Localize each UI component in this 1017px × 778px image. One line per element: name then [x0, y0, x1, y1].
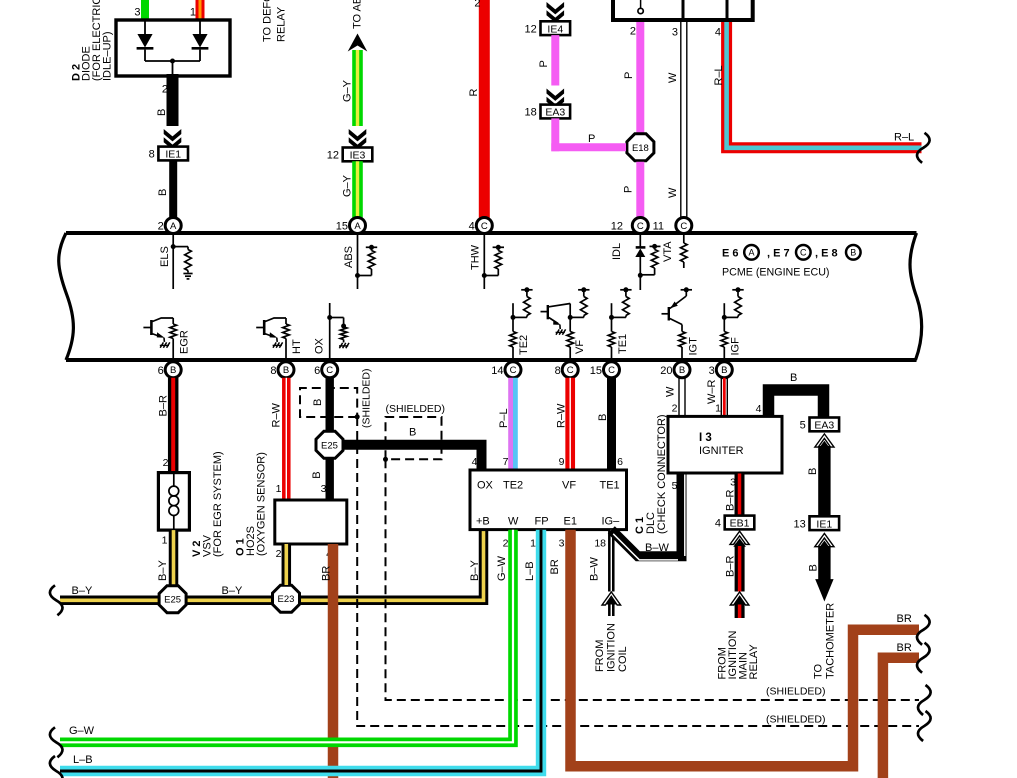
svg-text:B–Y: B–Y [222, 585, 243, 597]
svg-text:B: B [157, 189, 169, 196]
svg-text:1: 1 [530, 538, 536, 550]
connector IE4 [525, 21, 571, 35]
ground (HT emitter) [273, 342, 283, 347]
svg-text:B–R: B–R [725, 490, 737, 511]
wire W (20B IGT to igniter pin 2) [665, 378, 686, 417]
wire B (EA3 to IE1, arrows up) [807, 434, 834, 516]
svg-text:E25: E25 [164, 595, 181, 606]
svg-text:TO: TO [813, 663, 825, 679]
junction E25 (lower) [159, 586, 186, 613]
svg-text:THW: THW [470, 244, 482, 270]
svg-text:(SHIELDED): (SHIELDED) [766, 686, 826, 698]
svg-text:FP: FP [535, 516, 549, 528]
svg-text:(SHIELDED): (SHIELDED) [361, 368, 373, 428]
label FROM IGNITION COIL [594, 623, 629, 672]
terminal 3(B) IGF [709, 362, 733, 378]
svg-text:1: 1 [276, 483, 282, 495]
svg-text:B–R: B–R [725, 556, 737, 577]
diode D2-left [137, 20, 154, 61]
svg-text:BR: BR [549, 559, 561, 574]
wire P (IE4 to EA3) [538, 35, 564, 112]
svg-text:I 3: I 3 [699, 432, 712, 444]
svg-text:IG–: IG– [602, 516, 621, 528]
svg-text:B: B [283, 365, 289, 376]
terminal 8(B) HT [270, 362, 294, 378]
svg-text:TACHOMETER: TACHOMETER [825, 603, 837, 679]
svg-text:R–W: R–W [271, 402, 283, 427]
wire B-Y (VSV pin 1 to E25) [157, 530, 174, 585]
wire G-Y (IE3 to terminal 15A) [342, 161, 358, 218]
svg-text:15: 15 [590, 365, 602, 377]
svg-text:IE3: IE3 [350, 150, 366, 162]
ECU input IDL: diode and resistor [611, 235, 661, 290]
svg-text:A: A [170, 221, 177, 232]
svg-text:B–Y: B–Y [157, 560, 169, 581]
svg-text:, E 7: , E 7 [767, 248, 790, 260]
svg-text:(OXYGEN SENSOR): (OXYGEN SENSOR) [256, 452, 268, 556]
svg-text:3: 3 [134, 7, 140, 19]
svg-text:4: 4 [472, 456, 478, 468]
svg-text:C: C [326, 365, 333, 376]
wire BR (bottom edge to right break) [883, 642, 919, 778]
label O1 HO2S (OXYGEN SENSOR) [235, 452, 268, 556]
svg-text:W: W [667, 72, 679, 83]
terminal 12(C) IDL [611, 218, 649, 234]
wire B-W (DLC IG- pin 18 to ignition coil) [589, 530, 621, 616]
shield dashed box (B wire to DLC) [383, 403, 445, 462]
diode D2-right [192, 20, 209, 61]
svg-text:E23: E23 [278, 594, 295, 605]
ECU output OX: resistor to ground [314, 303, 347, 358]
wire B-R (EB1 from ignition main relay) [725, 531, 750, 618]
ECU input THW: pull-up resistor [470, 235, 505, 289]
svg-text:, E 8: , E 8 [815, 248, 838, 260]
svg-text:2: 2 [672, 403, 678, 415]
wire G-W (DLC W pin 2 to left break) [60, 530, 513, 743]
break (G-W left) [50, 727, 63, 757]
wire P-L (14C TE2 to DLC pin 7) [498, 378, 515, 470]
svg-text:2: 2 [158, 221, 164, 233]
svg-text:EB1: EB1 [730, 518, 750, 530]
wire W (pin 3 to terminal 11C) [667, 22, 687, 218]
transistor driver HT [256, 318, 303, 358]
terminal 8(C) VF [555, 362, 579, 378]
svg-text:B–W: B–W [645, 542, 669, 554]
wire B (IE1 to terminal 2A) [157, 160, 173, 217]
svg-text:8: 8 [149, 149, 155, 161]
svg-text:TO ABS: TO ABS [352, 0, 364, 29]
terminal 14(C) TE2 [491, 362, 521, 378]
svg-text:IE1: IE1 [816, 518, 832, 530]
svg-text:C: C [800, 248, 807, 258]
svg-text:B: B [807, 468, 819, 475]
terminal 15(A) ABS [336, 218, 366, 234]
svg-text:R–L: R–L [894, 132, 914, 144]
wire R-W (8C VF to DLC pin 9) [556, 378, 571, 470]
svg-text:B: B [597, 414, 609, 421]
svg-text:IE4: IE4 [547, 23, 563, 35]
svg-text:G–W: G–W [496, 555, 508, 581]
wire B-R (igniter pin 3 to EB1) [725, 474, 740, 516]
svg-text:E 6: E 6 [722, 248, 739, 260]
solenoid V2 VSV box [158, 473, 189, 530]
svg-text:1: 1 [715, 403, 721, 415]
svg-text:ABS: ABS [343, 246, 355, 268]
connector C1 DLC box [470, 470, 627, 530]
svg-text:PCME (ENGINE ECU): PCME (ENGINE ECU) [722, 267, 829, 279]
terminal 11(C) VTA [653, 218, 692, 234]
svg-text:TE1: TE1 [600, 480, 620, 492]
connector EA3 (top) [525, 105, 571, 119]
svg-text:2: 2 [630, 26, 636, 38]
svg-text:15: 15 [336, 221, 348, 233]
ECU input ELS: resistor to ground [159, 235, 191, 289]
svg-text:P: P [623, 186, 635, 193]
ECU output TE2: resistors [510, 287, 533, 358]
label C1 DLC (CHECK CONNECTOR) [634, 414, 668, 534]
svg-text:W: W [665, 386, 677, 397]
svg-text:C: C [567, 365, 574, 376]
svg-text:4: 4 [756, 403, 762, 415]
svg-text:18: 18 [525, 107, 537, 119]
svg-text:(SHIELDED): (SHIELDED) [766, 714, 826, 726]
svg-text:11: 11 [653, 221, 664, 233]
svg-text:6: 6 [314, 365, 320, 377]
svg-text:B: B [808, 564, 820, 571]
shield dashed run to line 2 [357, 417, 919, 726]
svg-text:C: C [637, 221, 644, 232]
wire R (to terminal 4C) [468, 0, 484, 218]
wire B-Y (HO2S pin 2 to E23) [276, 544, 287, 585]
svg-text:(SHIELDED): (SHIELDED) [386, 403, 446, 415]
svg-text:12: 12 [525, 23, 537, 35]
svg-text:A: A [354, 221, 361, 232]
svg-text:5: 5 [672, 480, 678, 492]
wire R-W (8B HT to HO2S pin 1) [271, 378, 287, 500]
ground (OX pull-down) [339, 343, 349, 348]
ECU output IGT: transistor [662, 287, 700, 358]
svg-text:R: R [468, 89, 480, 97]
svg-text:BR: BR [321, 566, 333, 581]
wire R-Y (D2 pin 1) [190, 0, 200, 21]
svg-text:R–W: R–W [556, 403, 568, 428]
svg-text:L–B: L–B [73, 754, 93, 766]
svg-text:W: W [508, 516, 519, 528]
wire B (E25 to HO2S pin 3) [311, 459, 330, 500]
ECU output IGF: resistors [721, 287, 744, 358]
terminal 2(A) ELS [158, 218, 182, 234]
svg-text:1: 1 [162, 535, 168, 547]
wire junction inside D2 [145, 59, 200, 64]
wire P (to IE4) [547, 0, 565, 26]
wire B shielded (6C OX to E25) [312, 378, 330, 431]
svg-text:BR: BR [897, 642, 912, 654]
svg-text:3: 3 [709, 365, 715, 377]
svg-text:RELAY: RELAY [748, 644, 760, 680]
wire B (igniter pin 4 to EA3) [756, 372, 824, 418]
svg-text:IGT: IGT [688, 337, 700, 356]
svg-text:VF: VF [574, 340, 586, 354]
svg-text:(FOR EGR SYSTEM): (FOR EGR SYSTEM) [212, 451, 224, 557]
svg-text:IDLE–UP): IDLE–UP) [102, 31, 114, 81]
svg-text:14: 14 [491, 365, 503, 377]
label TO TACHOMETER [813, 603, 837, 679]
svg-text:7: 7 [503, 456, 509, 468]
svg-text:E1: E1 [564, 516, 577, 528]
svg-text:2: 2 [474, 0, 480, 10]
svg-text:B: B [311, 471, 323, 478]
svg-text:B: B [679, 365, 685, 376]
shield dashed box (OX wire) [300, 368, 373, 428]
sensor block (throttle position) box [613, 0, 753, 20]
svg-text:IGNITION: IGNITION [606, 623, 618, 672]
svg-text:B: B [156, 109, 168, 116]
svg-text:6: 6 [617, 456, 623, 468]
svg-text:3: 3 [321, 483, 327, 495]
ground (ELS pull-down) [183, 274, 192, 279]
svg-text:12: 12 [611, 221, 623, 233]
wire B (D2 pin 2 to IE1) [156, 61, 181, 153]
svg-text:B–Y: B–Y [72, 585, 93, 597]
label V2 VSV (FOR EGR SYSTEM) [191, 451, 224, 557]
svg-text:IE1: IE1 [165, 149, 181, 161]
svg-text:R–L: R–L [713, 65, 725, 85]
svg-text:VF: VF [562, 480, 576, 492]
svg-text:+B: +B [476, 516, 490, 528]
svg-text:TE2: TE2 [503, 480, 523, 492]
connector IE1 (top) [149, 147, 188, 161]
wire BR (HO2S pin 4 down) [321, 544, 334, 778]
svg-text:8: 8 [270, 365, 276, 377]
svg-text:OX: OX [477, 480, 494, 492]
svg-text:ELS: ELS [159, 246, 171, 267]
wire B-Y bus (left break to E25 to E23 to +B) [60, 530, 484, 601]
svg-text:P: P [588, 133, 595, 145]
svg-text:IGF: IGF [730, 337, 742, 356]
shield dashed run to line 1 [386, 459, 920, 700]
wire P (pin 2 to E18) [623, 22, 640, 133]
svg-text:FROM: FROM [594, 640, 606, 672]
wire W-R (3B IGF to igniter pin 1) [706, 378, 727, 417]
svg-text:RELAY: RELAY [276, 6, 288, 42]
svg-text:EA3: EA3 [545, 107, 565, 119]
svg-text:IGNITER: IGNITER [699, 445, 744, 457]
svg-text:B: B [850, 248, 856, 258]
svg-text:1: 1 [190, 7, 196, 19]
ECU input VTA: resistor [662, 235, 687, 268]
oxygen sensor O1 HO2S box [275, 500, 347, 544]
svg-text:COIL: COIL [617, 646, 629, 672]
svg-text:12: 12 [327, 150, 339, 162]
ECU output VF: transistor and resistors [541, 287, 590, 358]
svg-text:G–Y: G–Y [342, 79, 354, 102]
svg-text:B–R: B–R [158, 395, 170, 416]
wire B (15C TE1 to DLC pin 6) [597, 378, 623, 470]
svg-text:OX: OX [314, 337, 326, 354]
svg-text:C: C [608, 365, 615, 376]
svg-text:C: C [510, 365, 517, 376]
svg-text:2: 2 [162, 84, 168, 96]
svg-text:HT: HT [291, 339, 303, 354]
svg-text:B: B [409, 427, 416, 439]
svg-text:B: B [721, 365, 727, 376]
svg-text:EA3: EA3 [814, 420, 834, 432]
svg-text:G–Y: G–Y [342, 174, 354, 197]
break (shielded line 2 right) [918, 711, 931, 741]
break (B-Y left) [50, 585, 63, 615]
svg-text:TE2: TE2 [518, 335, 530, 355]
svg-text:13: 13 [794, 518, 806, 530]
wire P (E18 to terminal 12C) [623, 162, 641, 218]
wire BR (DLC E1 pin 3 to right break) [549, 530, 919, 766]
svg-text:5: 5 [800, 420, 806, 432]
terminal 6(C) OX [314, 362, 338, 378]
svg-text:3: 3 [559, 538, 565, 550]
label FROM IGNITION MAIN RELAY [717, 631, 761, 680]
svg-text:TO DEFOGGER: TO DEFOGGER [262, 0, 274, 42]
svg-text:6: 6 [158, 365, 164, 377]
svg-text:2: 2 [503, 538, 509, 550]
wire P (EA3 to E18) [551, 118, 626, 151]
svg-text:2: 2 [276, 548, 282, 560]
wire B (E25 to DLC OX pin 4) [343, 427, 482, 471]
junction E23 [273, 585, 300, 612]
break (L-B left) [50, 756, 63, 778]
svg-text:B–Y: B–Y [469, 560, 481, 581]
svg-text:E18: E18 [632, 143, 649, 154]
svg-text:A: A [748, 248, 754, 258]
svg-text:8: 8 [555, 365, 561, 377]
svg-text:B: B [790, 372, 797, 384]
svg-text:4: 4 [469, 221, 475, 233]
svg-text:B: B [312, 399, 324, 406]
svg-text:IDL: IDL [611, 243, 623, 260]
terminal 20(B) IGT [660, 362, 690, 378]
svg-text:4: 4 [715, 518, 721, 530]
connector IE3 [327, 148, 373, 162]
wire B (IE1 to tachometer) [808, 534, 835, 602]
svg-text:P: P [538, 60, 550, 67]
PCME engine ECU body [59, 233, 922, 360]
svg-text:W: W [667, 187, 679, 198]
break (R-L right) [917, 133, 930, 163]
label E6/E7/E8 PCME (ENGINE ECU) [722, 245, 861, 279]
connector EA3 (right) [800, 418, 839, 432]
ground (EGR emitter) [160, 342, 170, 347]
svg-text:BR: BR [897, 613, 912, 625]
svg-text:VTA: VTA [662, 241, 674, 262]
svg-text:2: 2 [163, 457, 169, 469]
svg-text:4: 4 [715, 26, 721, 38]
ground (VF emitter) [556, 329, 566, 334]
break (BR upper right) [917, 615, 930, 645]
svg-text:L–B: L–B [524, 561, 536, 581]
igniter I3 box [668, 416, 782, 473]
svg-text:P–L: P–L [498, 408, 510, 428]
svg-text:(CHECK CONNECTOR): (CHECK CONNECTOR) [656, 414, 668, 534]
ECU output TE1: resistors [608, 287, 631, 358]
connector IE1 (right) [794, 516, 840, 530]
terminal 15(C) TE1 [590, 362, 620, 378]
wire B-R (6B EGR to VSV pin 2) [158, 378, 174, 473]
junction E18 [627, 134, 654, 161]
svg-text:3: 3 [672, 26, 678, 38]
wire G-Y (arrow to IE3) [342, 50, 367, 153]
wire L-B (DLC FP pin 1 to left break) [60, 530, 541, 771]
svg-text:C: C [680, 221, 687, 232]
connector EB1 [715, 516, 754, 530]
diode block D2 box [116, 20, 230, 76]
break (BR lower right) [917, 643, 930, 673]
break (shielded line 1 right) [918, 685, 931, 715]
label TO ABS (arrow up) [352, 0, 364, 29]
label D2 DIODE (FOR ELECTRICAL IDLE-UP) [71, 0, 114, 81]
terminal 6(B) EGR [158, 362, 182, 378]
wire B-W (IG- to igniter pin 5) [611, 474, 685, 560]
arrow up (to ABS actuator) [348, 34, 368, 52]
svg-text:P: P [623, 72, 635, 79]
terminal 4(C) THW [469, 218, 493, 234]
label TO DEFOGGER RELAY [262, 0, 288, 42]
wire G (D2 pin 3) [134, 0, 145, 21]
svg-text:E25: E25 [321, 440, 338, 451]
svg-text:9: 9 [559, 456, 565, 468]
svg-text:20: 20 [660, 365, 672, 377]
transistor driver EGR [143, 318, 190, 358]
svg-text:18: 18 [594, 538, 606, 550]
svg-text:W–R: W–R [706, 380, 718, 405]
svg-text:C: C [481, 221, 488, 232]
svg-text:EGR: EGR [179, 330, 191, 354]
svg-text:TE1: TE1 [617, 334, 629, 354]
ECU input ABS: pull-up resistor [343, 235, 377, 289]
wire R-L (pin 4 to right break) [713, 22, 922, 148]
svg-text:B–W: B–W [589, 557, 601, 581]
junction E25 (mid) [316, 431, 343, 458]
svg-text:B: B [170, 365, 176, 376]
svg-text:G–W: G–W [69, 725, 95, 737]
